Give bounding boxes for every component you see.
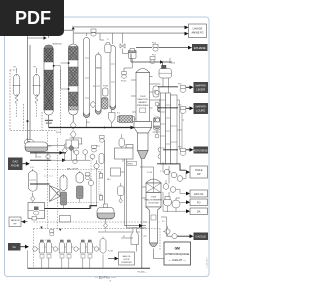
pump PC1 <box>74 150 79 155</box>
wire header L2 to lavage <box>74 32 185 34</box>
drum D5 <box>154 117 161 130</box>
node T2 box <box>151 215 156 220</box>
pump PR7 <box>172 234 177 239</box>
svg-text:FR-6: FR-6 <box>152 43 156 45</box>
svg-text:FR-4: FR-4 <box>56 132 60 134</box>
svg-text:FR-88: FR-88 <box>103 86 108 88</box>
wire under H2 <box>105 219 107 223</box>
box right 6 white HUILE <box>190 166 208 178</box>
svg-text:HUILE: HUILE <box>195 169 203 172</box>
valve XV3 <box>90 101 96 108</box>
column C3 <box>110 45 116 109</box>
svg-text:FR-8.6: FR-8.6 <box>121 81 127 83</box>
instrument TD1 <box>159 99 162 106</box>
tower T1 <box>134 69 152 269</box>
wire dashed pump enclosure <box>34 229 161 269</box>
svg-text:GM: GM <box>175 246 180 250</box>
svg-text:DA: DA <box>197 211 201 214</box>
svg-text:FRACTION: FRACTION <box>138 98 149 101</box>
node junction dots <box>104 127 106 129</box>
box right 8 white FO <box>190 199 208 206</box>
svg-text:EJ: EJ <box>123 236 125 238</box>
svg-text:PRINCIPALE: PRINCIPALE <box>137 104 149 107</box>
wire drumH to E2 <box>48 145 65 147</box>
instrument FM2 <box>85 173 90 180</box>
label left dark GAZ RICHE <box>8 158 23 171</box>
pump unit PU2 <box>53 240 71 253</box>
furnace F2 <box>33 67 41 119</box>
drum DM1 <box>118 183 125 203</box>
pump PS1 <box>155 91 159 95</box>
wire cluster links <box>163 162 186 198</box>
wire feed drop left <box>28 31 65 39</box>
svg-text:NAPHTA: NAPHTA <box>196 84 207 88</box>
wire long vertical x124 x126.5 <box>121 159 127 228</box>
svg-text:HP: HP <box>13 224 17 226</box>
column C1 <box>84 33 90 127</box>
node arrow down x41 <box>40 227 42 230</box>
column C2 <box>96 52 102 114</box>
instrument FI1 <box>153 44 158 51</box>
svg-text:FU-44: FU-44 <box>108 251 113 253</box>
instrument FRC3 <box>180 149 186 156</box>
wire gaz line2 thick <box>30 159 51 161</box>
pump cluster right: pump PR1 <box>164 169 170 175</box>
svg-text:— ED-PTm ——: — ED-PTm —— <box>95 275 116 279</box>
node arrow into R1 <box>44 36 47 40</box>
valve XV6 <box>69 145 74 151</box>
instrument FRC2 <box>180 107 186 114</box>
svg-text:FR-66: FR-66 <box>103 99 108 101</box>
reactor R1 <box>44 35 54 128</box>
box stripper label <box>119 252 135 265</box>
wire pd links <box>157 130 166 157</box>
node arrow y160 <box>62 158 66 162</box>
svg-text:GAZOLE: GAZOLE <box>195 235 206 239</box>
pump PR5 <box>170 187 176 193</box>
wire dash segs <box>44 170 104 203</box>
label FRLE box <box>127 162 137 166</box>
pump unit PU1 <box>33 240 52 253</box>
svg-text:LAVAGE: LAVAGE <box>193 27 203 30</box>
dashed vertical x57 <box>57 138 59 230</box>
instrument FM1 <box>92 145 97 152</box>
pump PC6 <box>73 159 77 163</box>
pump PC2 <box>83 150 88 155</box>
wire bottom connections <box>28 251 104 269</box>
drum D7 flanged <box>124 49 136 72</box>
PDF badge <box>0 0 64 36</box>
pump PR2 <box>171 172 177 178</box>
wire v1v2 links <box>122 134 123 162</box>
instrument FI2 <box>150 57 155 64</box>
svg-text:AMINE FG: AMINE FG <box>191 32 203 35</box>
pump PR3 <box>177 176 183 182</box>
svg-text:FR-2: FR-2 <box>86 122 90 124</box>
svg-text:GAS OIL: GAS OIL <box>122 255 131 258</box>
pump PM1 motor <box>164 197 187 209</box>
svg-text:FRACTIONNEMENT: FRACTIONNEMENT <box>145 198 163 201</box>
node arrow enclosure <box>59 229 61 232</box>
svg-text:HYDR: HYDR <box>124 259 130 261</box>
svg-text:TOUR: TOUR <box>140 96 146 98</box>
valve XV7 <box>104 223 108 228</box>
pump PH1 <box>46 154 50 158</box>
svg-text:LEGER: LEGER <box>196 88 205 92</box>
wire thick mid2 <box>45 206 98 209</box>
vessel P1b <box>76 171 84 203</box>
svg-text:FO: FO <box>197 202 201 205</box>
dashed horizontal y222 <box>34 221 161 223</box>
svg-text:E-4: E-4 <box>117 113 120 115</box>
instrument FRC1 <box>180 86 186 93</box>
vessel P1 <box>60 174 67 209</box>
pump PS2 <box>155 102 159 106</box>
pump PC4 <box>94 163 99 168</box>
svg-text:GAZ: GAZ <box>13 160 19 164</box>
side stripper S2 <box>166 93 171 164</box>
svg-text:RICHE: RICHE <box>11 164 19 168</box>
side stripper S3 <box>171 95 178 164</box>
label left dark FU <box>8 243 21 251</box>
pump unit PU3 <box>74 240 99 253</box>
reactor R2 <box>68 44 78 122</box>
svg-text:GAS OIL: GAS OIL <box>194 193 205 196</box>
wire badge stub <box>64 30 73 44</box>
pump PR6 <box>165 229 170 234</box>
compressor K1 <box>50 186 61 202</box>
valve XV1 <box>70 122 76 130</box>
wire T2 nozzles <box>140 167 154 236</box>
svg-text:V-12: V-12 <box>30 167 34 169</box>
drum D4 <box>158 103 164 112</box>
drum D1 <box>103 88 109 96</box>
pump PR4 <box>163 184 169 190</box>
wire dashed x60.5 <box>60 70 62 135</box>
ejector bottle <box>131 228 139 245</box>
wire down links <box>91 169 97 209</box>
wire long vertical x104.5 <box>104 140 106 204</box>
instrument FB1 <box>99 136 104 143</box>
svg-text:FR-3: FR-3 <box>96 146 100 148</box>
drum H horizontal <box>25 142 48 152</box>
pump PD1 <box>158 148 162 152</box>
exchanger E2 <box>66 140 79 148</box>
box BX2 <box>111 168 121 176</box>
drum D7c <box>100 33 111 52</box>
wire mid thick <box>30 152 66 154</box>
wire ejector <box>121 238 137 252</box>
vessel V1 <box>119 138 125 147</box>
wire mid connections <box>51 138 97 180</box>
wire T2 bottom <box>154 249 169 259</box>
node arrow y152 <box>60 151 64 155</box>
valve XV4 <box>31 196 35 201</box>
node feed arrow <box>131 126 135 130</box>
svg-text:FR-60: FR-60 <box>97 68 102 70</box>
svg-text:KEROSENE: KEROSENE <box>194 149 208 152</box>
box right 3 dark NAPHTA LEGER <box>194 82 209 93</box>
instrument FRtop <box>91 29 96 36</box>
wire gaz riche arrow <box>23 163 29 165</box>
box right 10 dark GAZOLE <box>194 233 209 241</box>
box right 7 white GAS OIL <box>190 190 208 197</box>
furnace F1 <box>13 67 21 119</box>
wire extra dashes <box>91 155 99 196</box>
svg-text:1.102.184.1: 1.102.184.1 <box>207 257 209 268</box>
valve CV1 <box>99 172 103 179</box>
drum D3 <box>153 86 159 97</box>
box right 5 dark KEROSENE <box>194 147 209 154</box>
wire T1 side nozzles <box>131 77 161 133</box>
label T1 text <box>137 96 149 107</box>
svg-text:BALLON HP: BALLON HP <box>67 168 79 171</box>
svg-text:PC-68: PC-68 <box>147 172 152 174</box>
drum D2 hatched <box>102 98 109 110</box>
wire y62 line <box>131 54 172 70</box>
wire naphta leger line <box>158 86 178 88</box>
wire ethane feed <box>136 47 188 49</box>
vessel VN <box>99 153 104 164</box>
wire bottom thick <box>28 267 151 269</box>
svg-text:Fu: Fu <box>13 245 17 249</box>
title block <box>164 242 191 265</box>
box GM label <box>60 216 71 223</box>
svg-text:FR-316: FR-316 <box>169 63 175 65</box>
pump PD2 <box>158 155 162 159</box>
drum D6 cone bottom <box>109 113 116 124</box>
svg-text:HYDROCRAQUAGE: HYDROCRAQUAGE <box>165 252 189 256</box>
pump PS3 <box>156 118 160 122</box>
svg-text:FR-7: FR-7 <box>152 55 156 57</box>
wire into drum H <box>28 138 52 158</box>
node arrow up feed <box>72 27 75 30</box>
page border <box>5 17 210 277</box>
wire naphta lourd line <box>158 107 178 109</box>
label small annotations <box>30 43 182 253</box>
drum H2 <box>97 204 115 219</box>
label pump boxes <box>40 255 92 259</box>
box right 1 white LAVAGE AMINE <box>189 24 207 38</box>
svg-text:SOUS VIDE: SOUS VIDE <box>148 202 159 204</box>
wire pump row links <box>37 247 100 249</box>
box tank B2 <box>115 145 134 160</box>
svg-text:PT-63: PT-63 <box>37 157 42 159</box>
wire cooler down <box>163 58 170 93</box>
wire huile thick <box>157 164 186 170</box>
valve bowtie BV1 <box>120 44 125 48</box>
svg-text:GP: GP <box>197 173 201 176</box>
svg-text:FRLE: FRLE <box>128 163 134 165</box>
pump PC5 <box>88 180 93 185</box>
svg-text:STRIPPER: STRIPPER <box>121 262 132 264</box>
pot on drum H <box>25 140 34 146</box>
exchanger HX1 <box>117 116 134 123</box>
svg-text:VAPEUR: VAPEUR <box>11 219 20 222</box>
wire kerosene line <box>163 149 178 151</box>
svg-text:NAPHTA: NAPHTA <box>196 105 207 109</box>
box right 2 dark ETHANE <box>192 44 208 51</box>
svg-text:MDA-P200: MDA-P200 <box>53 43 62 46</box>
pump PS4 <box>155 134 159 138</box>
box right 4 dark NAPHTA LOURD <box>194 103 209 114</box>
instrument VU <box>50 230 54 236</box>
wire T2 feed <box>125 226 147 228</box>
wire hx to tower <box>135 118 138 120</box>
valve XV5 <box>62 148 67 154</box>
svg-text:FA-2: FA-2 <box>107 178 111 181</box>
wire main feed thick <box>49 127 134 129</box>
label T2 text <box>145 197 163 205</box>
wire cluster to bottom <box>163 192 186 212</box>
svg-text:— Unité 87 —: — Unité 87 — <box>168 258 186 262</box>
valve CV2 <box>99 194 103 201</box>
svg-text:NEMENT: NEMENT <box>138 102 147 104</box>
box left VAPEUR <box>9 217 21 227</box>
svg-text:LOURD: LOURD <box>196 109 205 113</box>
wire pr links <box>163 226 172 236</box>
aircooler AC1 drum <box>159 65 172 78</box>
vessel FA <box>100 238 106 253</box>
svg-text:TOUR: TOUR <box>151 197 157 199</box>
node T1 box <box>140 108 146 113</box>
wire drop C3 feed <box>112 33 114 44</box>
wire thick y184 <box>30 183 50 185</box>
node pipe junction <box>27 120 29 122</box>
wire y232 <box>98 231 140 233</box>
node arrow right y62 <box>160 60 164 64</box>
box right 9 white DA <box>190 208 208 215</box>
wire drop valve feed <box>123 33 129 53</box>
vessel VA <box>29 169 38 196</box>
wire vertical pipe pair left <box>28 38 31 142</box>
wire dashed loop left <box>10 70 57 131</box>
page background <box>0 0 216 287</box>
wire tie stubs <box>54 63 67 89</box>
pump PC3 <box>90 154 95 159</box>
wire gazole line <box>172 235 190 237</box>
side stripper S1 <box>160 93 165 164</box>
valve XV2 <box>70 131 76 139</box>
wire header L1 to lavage <box>72 26 185 28</box>
svg-text:FU-446—: FU-446— <box>138 271 148 273</box>
wire fu arrow <box>21 246 29 248</box>
dashed vertical x47 <box>47 132 49 230</box>
svg-text:ETHANE: ETHANE <box>194 46 206 50</box>
instrument on dashed line <box>32 217 37 221</box>
tower T2 <box>146 179 161 247</box>
wire stripper rights <box>177 100 184 150</box>
box package unit <box>28 203 45 219</box>
wire R2 bottom <box>72 138 74 153</box>
